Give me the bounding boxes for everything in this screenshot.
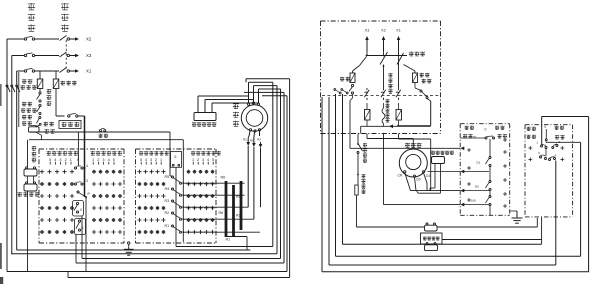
label contact-port switch (right, vertical) xyxy=(361,174,365,194)
knife switch bar (right diagram) xyxy=(366,55,407,57)
knife switch blade 2 xyxy=(380,52,388,65)
svg-text:R1: R1 xyxy=(243,138,247,142)
rotor switch R5 xyxy=(165,175,185,184)
label resistor bank R1 xyxy=(226,238,231,242)
label motor M1 (vertical) xyxy=(233,103,239,126)
label box D header right xyxy=(555,126,565,130)
overcurrent spring xyxy=(382,108,385,124)
end limit switch box (right) xyxy=(421,233,443,244)
terminal arrow X1 xyxy=(70,69,92,74)
wire plunger to line A xyxy=(36,132,42,140)
rotor switch R2 xyxy=(165,211,185,220)
end limit switch upper xyxy=(24,167,37,176)
knife switch blade 1 xyxy=(360,55,368,66)
wire bundle v3 xyxy=(335,94,337,256)
ground (left diagram) xyxy=(124,242,134,255)
overcurrent relay contact 2 xyxy=(37,104,42,114)
svg-text:3: 3 xyxy=(102,158,104,162)
limit contact on line A xyxy=(100,128,106,131)
svg-text:R5: R5 xyxy=(165,175,170,179)
svg-text:D0: D0 xyxy=(475,185,479,189)
brake electromagnet coil (right) xyxy=(432,157,445,164)
zero selector box2 xyxy=(171,152,182,168)
spacing selector box D (dashed) xyxy=(525,125,573,217)
wire rotor lead 1 xyxy=(246,131,250,207)
label limit contact xyxy=(99,134,109,138)
contact matrix box2 ascend grid xyxy=(186,170,214,234)
svg-text:X3: X3 xyxy=(365,29,370,33)
contact tick row box1 descend xyxy=(50,162,71,165)
contact marks box C left xyxy=(467,148,471,202)
rotor switch R4 xyxy=(165,187,185,196)
wire row R2 to bars xyxy=(184,218,254,220)
svg-text:R3: R3 xyxy=(257,138,261,142)
label box C header left xyxy=(465,126,487,132)
knife switch blade 3 xyxy=(397,53,404,65)
wire box C entry 2 xyxy=(461,171,489,173)
aux contact L1 xyxy=(334,89,341,94)
overcurrent relay coil A xyxy=(365,110,371,121)
svg-text:1: 1 xyxy=(160,158,162,162)
wire loop vertical 5 xyxy=(286,96,288,272)
wire bottom bus 1 xyxy=(17,249,251,251)
terminal arrow X3 xyxy=(70,53,92,58)
rotor switch R1 xyxy=(165,224,185,233)
overcurrent relay contact 1 xyxy=(37,92,42,102)
svg-text:R1: R1 xyxy=(165,224,170,228)
wire bottom bus 2 xyxy=(11,253,277,255)
contact-port switch (right) xyxy=(355,185,358,195)
contact box D row2 right xyxy=(549,154,557,161)
svg-text:4: 4 xyxy=(108,158,110,162)
controller drum box 1 (dashed) xyxy=(39,149,124,243)
label box C header right xyxy=(495,126,505,130)
fuse FU1 xyxy=(53,79,59,89)
contactor main contact row X3 xyxy=(24,53,59,57)
label box D header left xyxy=(527,127,537,131)
contact box C D1 xyxy=(477,157,492,167)
wire bottom right bus 1 xyxy=(343,243,542,245)
wire bold vertical control bus xyxy=(84,116,86,197)
wire box C to ground xyxy=(510,210,517,212)
label contactor (vertical, mid) xyxy=(47,89,52,106)
terminal arrow X2 xyxy=(70,37,92,42)
svg-text:4: 4 xyxy=(86,164,88,168)
terminal X3 (up arrow) xyxy=(365,29,370,52)
overcurrent relay coil B xyxy=(396,110,402,121)
svg-text:5: 5 xyxy=(212,158,214,162)
svg-text:X3: X3 xyxy=(86,53,92,58)
wire to box C row 3 xyxy=(411,189,465,193)
wire bottom bus 3 xyxy=(82,258,281,260)
wire lines to end limit switch xyxy=(27,140,29,167)
svg-text:R3: R3 xyxy=(165,199,170,203)
wire X2 stub xyxy=(383,51,385,56)
svg-text:3: 3 xyxy=(202,158,204,162)
wire coils top xyxy=(367,103,399,110)
rotor switch R3 xyxy=(165,199,185,208)
motor M2 terminal D1 xyxy=(422,171,430,178)
wire phase row to terminal X3 xyxy=(12,55,24,57)
wire brake drops xyxy=(430,164,441,194)
contact tick row box2 descend xyxy=(141,162,161,165)
wire X1 row left drop xyxy=(18,72,20,127)
wire motor top loop 1 xyxy=(249,82,273,96)
wire feeder X2 down xyxy=(383,134,385,205)
wire feeder X1 to right xyxy=(399,134,431,191)
selector zero stub box D xyxy=(545,125,548,141)
svg-text:5: 5 xyxy=(49,158,51,162)
wire motor bottom trapezoid xyxy=(405,173,427,191)
label brake electromagnet (left) xyxy=(192,122,216,126)
svg-text:3: 3 xyxy=(150,158,152,162)
wire loop vertical 4 xyxy=(283,92,285,263)
supply panel inner dashed divider xyxy=(322,95,441,97)
aux contact L2 xyxy=(341,89,348,94)
wire box D right loop xyxy=(546,141,581,256)
label brake electromagnet (right) xyxy=(431,151,454,155)
wire row R4 to bars xyxy=(184,194,245,196)
svg-text:R1: R1 xyxy=(226,238,231,242)
scan mark edge 1 xyxy=(0,84,2,106)
wire X1 feeder down xyxy=(398,56,400,89)
contactor contact phase C (right) xyxy=(396,88,401,100)
motor M2 terminal D0 xyxy=(413,175,420,181)
relay switch assembly upper xyxy=(73,201,84,217)
contact marks box C right xyxy=(503,138,507,208)
label emergency switch (2 lines) xyxy=(44,122,55,134)
wire brake to motor t3 xyxy=(212,103,259,113)
end limit cap bottom (right) xyxy=(425,243,438,251)
wire bottom right bus 3 xyxy=(329,264,556,266)
svg-text:X2: X2 xyxy=(381,29,386,33)
knife switch pole row X1 xyxy=(60,68,70,73)
wire bottom right bus 4 xyxy=(322,271,589,273)
knife switch pole row X3 xyxy=(60,52,70,57)
contact marks box D xyxy=(528,146,564,161)
contact matrix box2 descend grid xyxy=(137,170,165,234)
svg-text:R8: R8 xyxy=(219,211,224,215)
contact box C 106 xyxy=(471,196,491,206)
svg-text:4: 4 xyxy=(207,158,209,162)
svg-text:1: 1 xyxy=(192,158,194,162)
label overcurrent relay contact switch (4 lines) xyxy=(21,102,37,126)
wire port switch down xyxy=(356,195,358,227)
contact pair box1 row2 xyxy=(74,179,88,185)
wire box D descend drop xyxy=(555,161,557,266)
label overcurrent relay (right, vertical) xyxy=(385,99,389,122)
scan mark edge 3 xyxy=(0,277,3,284)
wire X2 feeder down xyxy=(383,65,385,89)
wire box D loop top xyxy=(542,117,589,146)
svg-text:1: 1 xyxy=(92,158,94,162)
wire limit box right link xyxy=(442,217,542,244)
svg-text:5: 5 xyxy=(113,158,115,162)
digits 5 4 3 2 1 box1 xyxy=(49,158,79,162)
wire motor top loop 4 xyxy=(244,91,284,93)
wire row R3 to bars xyxy=(184,206,248,208)
digits 1 2 3 4 5 box1 xyxy=(92,158,115,162)
svg-text:2: 2 xyxy=(155,158,157,162)
wire assembly drops xyxy=(76,197,86,272)
wire coils bus drop xyxy=(360,126,362,133)
svg-text:2: 2 xyxy=(65,158,67,162)
fuse FU2 xyxy=(350,73,355,83)
wire bottom bus 6 xyxy=(68,272,290,278)
wire row R1 to bars xyxy=(184,231,260,233)
label ascend (spacing) box1 xyxy=(91,151,123,155)
wire FU2 contact down xyxy=(350,94,353,148)
svg-text:3: 3 xyxy=(59,158,61,162)
label box C ascend xyxy=(498,134,508,138)
wire box C chain 2 xyxy=(489,167,491,181)
wire box C chain 3 xyxy=(489,191,491,196)
wire phase row to terminal X2 xyxy=(7,38,24,40)
wire emergency down xyxy=(357,154,359,185)
wire bottom bus 4 xyxy=(76,262,284,264)
svg-text:4: 4 xyxy=(145,158,147,162)
motor M2 terminal CR xyxy=(398,171,406,178)
label rotor leads xyxy=(243,138,261,143)
wire control line A xyxy=(29,131,170,133)
svg-text:R4: R4 xyxy=(165,187,170,191)
spacing selector box C (dashed) xyxy=(460,124,510,216)
end limit cap top (right) xyxy=(425,223,438,231)
svg-text:D0: D0 xyxy=(417,178,421,182)
wire blade3 to fuse xyxy=(404,65,416,74)
contact matrix box1 ascend grid xyxy=(92,170,122,234)
wire motor top loop 5 xyxy=(262,95,287,97)
svg-text:X1: X1 xyxy=(86,69,92,74)
wire loop vertical 3 xyxy=(280,89,282,259)
label motor M2 xyxy=(405,143,422,148)
svg-text:2: 2 xyxy=(97,158,99,162)
wire to box C row 4 xyxy=(384,203,465,207)
wire FU3 to aux contact xyxy=(415,83,420,91)
wire loop vertical 6 xyxy=(289,79,291,278)
controller drum box 2 (dashed) xyxy=(136,149,217,243)
label descend (spacing) box1 xyxy=(47,151,79,155)
wire bundle v1 xyxy=(321,97,323,272)
end limit switch lower xyxy=(24,182,37,191)
wire box C chain 4 xyxy=(489,206,491,216)
overcurrent relay contact 3 xyxy=(37,117,42,126)
wire bottom bus 5 xyxy=(7,271,287,273)
wire brake to motor t1 xyxy=(198,96,249,113)
contact box C D0 xyxy=(475,181,491,191)
resistor bank bar 3 xyxy=(219,181,243,230)
contact CR box1 xyxy=(77,191,91,198)
label contactor (right diagram, vertical) xyxy=(388,73,392,93)
wire line A drop into box1 xyxy=(77,132,79,166)
label descend (spacing) box2 xyxy=(139,151,169,155)
emergency switch (plunger) xyxy=(29,125,40,132)
label end limit switch xyxy=(18,192,40,196)
wire bundle v2 xyxy=(328,97,330,265)
contactor main contact row X2 xyxy=(24,36,59,40)
svg-text:106: 106 xyxy=(471,199,476,203)
label fuse FU1 xyxy=(61,81,77,85)
label box D descend xyxy=(527,135,537,139)
label contactor (vertical, left of limit sw) xyxy=(32,146,37,162)
contact box D row1 left xyxy=(537,141,548,149)
contact tick row box2 ascend xyxy=(193,162,213,165)
brake electromagnet coil (left) xyxy=(194,113,216,121)
emergency switch (right) xyxy=(357,143,363,153)
terminal X1 (up arrow) xyxy=(396,29,401,52)
terminal X2 (up arrow) xyxy=(381,29,386,52)
ground (right diagram) xyxy=(512,211,523,223)
wire emergency feed xyxy=(357,134,359,144)
motor M1 rotor xyxy=(246,110,263,127)
wire R column top feed xyxy=(170,175,173,177)
svg-text:R2: R2 xyxy=(236,214,241,218)
overcurrent relay coil (rect with diagonal) xyxy=(37,79,43,89)
wire between limit caps xyxy=(28,176,34,183)
contact below FU2 xyxy=(349,84,354,94)
wire loop vertical right outer xyxy=(588,117,590,273)
wire brake lower link xyxy=(417,191,441,194)
wire to box C row 2 xyxy=(428,170,465,174)
wire control line B xyxy=(29,139,183,141)
wire control line B drop xyxy=(182,140,184,242)
svg-text:0: 0 xyxy=(545,125,547,129)
svg-text:D1: D1 xyxy=(477,161,481,165)
svg-text:1: 1 xyxy=(70,158,72,162)
motor M2 stator xyxy=(399,149,427,177)
motor M1 stator xyxy=(241,105,267,131)
wire terminal link top xyxy=(357,226,425,228)
wire rotor lead 2 xyxy=(252,132,256,219)
wire X1 stub xyxy=(398,51,400,56)
wire motor top loop 2 xyxy=(254,86,278,100)
wire coils bottom bus xyxy=(361,120,431,128)
wire fuse FU1 bottom down xyxy=(55,89,57,117)
wire fuse2 top xyxy=(55,71,57,79)
wire feeder to motor top xyxy=(367,134,413,150)
wire left supply phase L3 vertical xyxy=(15,71,20,250)
svg-text:0: 0 xyxy=(174,155,176,159)
wire limit switch drop xyxy=(27,191,29,272)
wire bundle v4 xyxy=(342,94,344,244)
label contactor (vertical) top-left xyxy=(28,3,35,31)
label contactor (boxed) xyxy=(59,121,81,129)
label box D ascend xyxy=(555,135,565,139)
svg-text:4: 4 xyxy=(54,158,56,162)
wire box C chain 1 xyxy=(489,139,491,157)
relay switch assembly lower xyxy=(75,219,86,235)
wire X1 row to overcurrent relay xyxy=(39,71,41,79)
contact box C top xyxy=(461,136,495,139)
svg-text:2: 2 xyxy=(197,158,199,162)
svg-text:5: 5 xyxy=(140,158,142,162)
wire bottom bus 0 xyxy=(176,167,273,247)
svg-text:R2: R2 xyxy=(165,211,170,215)
wire box1 mid xyxy=(84,168,86,183)
svg-text:X2: X2 xyxy=(86,37,92,42)
supply panel box (dashed) xyxy=(321,21,441,134)
label ascend (spacing) box2 xyxy=(191,151,221,155)
wire to box C row 1 xyxy=(350,147,464,151)
wire phase row to terminal X1 xyxy=(17,70,24,72)
wire loop vertical 1 xyxy=(272,82,274,246)
svg-text:D1: D1 xyxy=(426,174,430,178)
wire motor top loop 6 xyxy=(246,79,290,82)
contactor contact phase A (right) xyxy=(364,88,369,100)
resistor bank bar 1 xyxy=(221,176,228,237)
wire brake to motor t2 xyxy=(205,100,254,113)
contact box D row1 right xyxy=(552,140,561,149)
wire box D links xyxy=(545,149,547,157)
wire box C entry 4 xyxy=(461,204,489,206)
label emergency switch (right, vertical) xyxy=(363,143,367,163)
wire left supply phase L2 vertical xyxy=(10,56,15,254)
knife switch dashed link xyxy=(65,40,67,70)
wire row R5 to bars xyxy=(184,182,245,184)
wire rotor lead 3 xyxy=(259,131,263,207)
svg-text:0: 0 xyxy=(77,158,79,162)
digits box2 left xyxy=(140,158,162,162)
fuse FU3 xyxy=(413,73,418,83)
contact matrix box1 descend grid xyxy=(40,170,74,234)
label overcurrent relay (2 lines) xyxy=(21,79,37,89)
wire control line A drop xyxy=(169,132,171,176)
svg-text:0: 0 xyxy=(80,208,82,212)
svg-text:3: 3 xyxy=(86,179,88,183)
wire motor top loop 3 xyxy=(259,89,281,103)
contactor main contact row X1 xyxy=(24,68,59,72)
svg-text:0: 0 xyxy=(485,128,487,132)
contact pair box1 row1 xyxy=(74,164,88,169)
svg-text:X1: X1 xyxy=(396,29,401,33)
wire cap to corner xyxy=(437,218,537,227)
contactor contact phase B (right) xyxy=(381,88,386,100)
wire box C entry 3 xyxy=(461,190,489,192)
wire loop vertical 2 xyxy=(276,86,278,254)
wire left supply phase L1 vertical xyxy=(6,39,11,272)
wire blade1 to fuse xyxy=(353,66,360,74)
motor M2 rotor xyxy=(406,154,421,169)
svg-text:D1: D1 xyxy=(473,135,477,139)
scan mark edge 2 xyxy=(0,243,2,269)
label knife switch (right) xyxy=(409,52,425,56)
contact box D row2 left xyxy=(538,151,547,160)
label fuse FU3 xyxy=(420,73,432,83)
wire bottom right bus 2 xyxy=(336,255,581,257)
motor M1 brush terminals top xyxy=(247,102,259,106)
label knife switch (vertical) top-left xyxy=(61,3,69,31)
wire X3 stub xyxy=(366,51,368,56)
knife switch pole row X2 xyxy=(60,36,70,41)
aux contact (right) xyxy=(420,90,428,99)
wire aux loop xyxy=(397,99,431,126)
wire relay to contact xyxy=(39,89,41,93)
digits box2 right xyxy=(192,158,214,162)
svg-text:R6: R6 xyxy=(221,176,226,180)
label fuse FU2 xyxy=(340,77,350,81)
label box C descend xyxy=(463,134,477,139)
contactor aux contact xyxy=(56,113,85,117)
contact tick row box1 ascend xyxy=(93,162,114,165)
svg-text:CR: CR xyxy=(398,174,403,178)
wire bars bottom link xyxy=(225,237,247,251)
motor M1 terminals bottom xyxy=(249,129,260,132)
resistor bank bar 2 xyxy=(232,185,241,237)
